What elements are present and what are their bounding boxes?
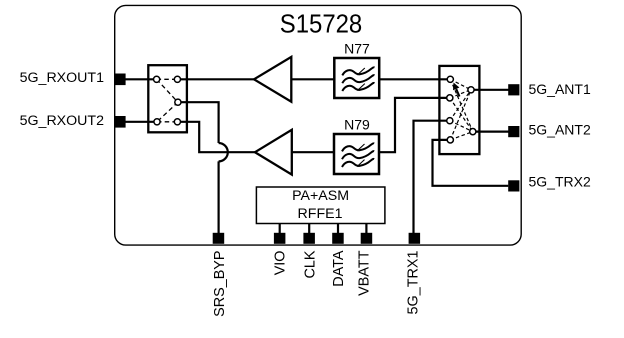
port square CLK [303,233,315,244]
wire SW2 to 5G_ANT2 [473,131,514,133]
switch SW2 contact R1 [468,87,474,93]
switch SW2 contact L1 [447,76,453,82]
wire hop over A2 wire [219,143,228,161]
port square 5G_ANT1 [508,84,519,95]
switch SW2 contact L3 [447,118,453,124]
port square DATA [332,233,344,244]
switch SW2 dashed L3-R1 [450,90,471,121]
filter N77 wave 2 [342,75,374,83]
filter N79 wave 3 [342,159,374,167]
switch SW1 box [148,65,187,132]
wire VBATT stub [365,224,367,235]
wire DATA stub [337,224,339,235]
svg-text:VBATT: VBATT [356,250,372,296]
module outline S15728 [115,5,522,245]
wire SW2 to 5G_TRX1 [414,121,450,234]
svg-text:5G_ANT1: 5G_ANT1 [529,81,591,97]
wire SW1 to amplifier A1 [177,78,254,80]
switch SW1 dashed throw BL-BR [157,121,177,123]
switch SW1 contact BR [174,119,180,125]
filter N77 wave 3 [342,83,374,91]
wire amplifier A1 to filter N77 [291,78,334,80]
wire SRS_BYP (lower segment) [218,161,220,234]
filter N77 wave 3 slash [357,84,365,91]
port square 5G_RXOUT2 [114,116,126,128]
svg-text:N79: N79 [344,117,370,133]
port square VBATT [361,233,373,244]
wire CLK stub [308,224,310,235]
wire VIO stub [279,224,281,235]
filter N77 box [334,58,379,98]
svg-text:SRS_BYP: SRS_BYP [212,251,228,317]
switch SW2 dashed L3-R2 [450,121,473,132]
PA+ASM RFFE1 box [256,187,385,224]
svg-text:RFFE1: RFFE1 [298,206,343,222]
filter N79 wave 1 slash [357,144,365,151]
switch SW2 contact R2 [470,129,476,135]
switch SW1 dashed throw MID-BL [157,102,178,122]
wire amplifier A2 to filter N79 [292,151,334,153]
switch SW2 contact L2 [447,95,453,101]
svg-text:S15728: S15728 [280,10,362,39]
wire 5G_RXOUT1 port to SW1 [120,78,157,80]
port square VIO [274,233,286,244]
filter N77 wave 1 [342,67,374,75]
switch SW2 actuator arrow [456,89,459,97]
port square 5G_TRX1 [409,233,421,244]
port square SRS_BYP [213,233,225,244]
switch SW2 contact L4 [447,137,453,143]
svg-text:5G_ANT2: 5G_ANT2 [529,121,591,137]
filter N79 wave 1 [342,143,374,151]
svg-text:5G_RXOUT1: 5G_RXOUT1 [20,70,104,86]
switch SW1 contact BL [154,119,160,125]
switch SW1 contact TR [174,76,180,82]
svg-text:5G_TRX1: 5G_TRX1 [406,251,422,315]
switch SW2 dashed L4-R1 [450,90,471,140]
wire filter N77 to SW2 [379,78,450,80]
switch SW2 dashed L2-R1 [450,90,471,98]
svg-text:N77: N77 [344,41,370,57]
wire 5G_RXOUT2 port to SW1 [120,121,157,123]
svg-text:DATA: DATA [331,250,347,287]
wire SW2 to 5G_TRX2 [433,140,509,186]
amplifier A1 [254,57,291,102]
switch SW2 box [439,66,479,154]
switch SW1 dashed throw TL-TR [157,78,178,80]
switch SW2 dashed L1-R2 [450,79,473,131]
filter N79 box [334,134,379,174]
filter N79 wave 2 [342,151,374,159]
switch SW2 dashed L1-R1 [450,79,471,90]
svg-text:VIO: VIO [273,251,289,276]
amplifier A2 [255,130,292,175]
port square 5G_TRX2 [508,180,519,191]
port square 5G_ANT2 [508,126,519,137]
wire SW1 to amplifier A2 [177,122,255,152]
switch SW2 dashed L4-R2 [450,132,473,140]
switch SW1 contact MID [175,99,181,105]
switch SW1 contact TL [154,76,160,82]
wire filter N79 to SW2 [379,98,450,152]
svg-text:5G_RXOUT2: 5G_RXOUT2 [20,113,104,129]
wire SW2 to 5G_ANT1 [471,89,514,91]
switch SW1 dashed throw TL-MID [157,79,178,102]
wire SW1 middle contact to SRS_BYP (upper segment) [178,102,219,143]
svg-text:PA+ASM: PA+ASM [292,188,349,204]
switch SW2 dashed L2-R2 [450,98,473,132]
filter N79 wave 3 slash [357,160,365,167]
svg-text:5G_TRX2: 5G_TRX2 [529,174,591,190]
svg-text:CLK: CLK [302,250,318,278]
port square 5G_RXOUT1 [114,74,126,86]
filter N77 wave 1 slash [357,68,365,75]
